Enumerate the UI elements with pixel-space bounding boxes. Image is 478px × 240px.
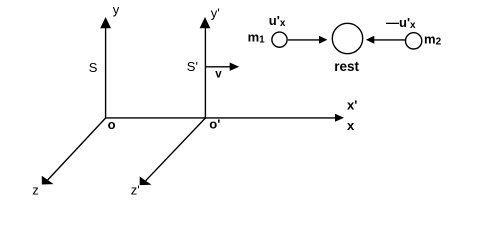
node: arrowhead m1 velocity	[319, 36, 327, 44]
wire: velocity v arrow of S' frame	[206, 66, 232, 68]
svg-text:rest: rest	[334, 59, 359, 74]
svg-text:v: v	[215, 69, 222, 81]
svg-text:S: S	[89, 60, 98, 75]
svg-text:x: x	[347, 118, 355, 133]
wire: arrow from m1 toward rest mass	[288, 39, 320, 41]
wire: arrow from m2 toward rest mass	[374, 39, 406, 41]
svg-text:x': x'	[347, 98, 357, 113]
wire: S' frame y'-axis line	[204, 24, 206, 118]
node: rest mass big circle	[332, 23, 362, 53]
node: arrowhead m2 velocity	[366, 36, 374, 44]
svg-text:o: o	[108, 117, 116, 132]
svg-text:o': o'	[209, 117, 220, 132]
svg-text:z': z'	[131, 183, 140, 198]
node: x-axis arrowhead	[335, 114, 344, 122]
wire: S' frame z'-axis diagonal	[146, 118, 206, 181]
node: particle m2 circle	[406, 33, 422, 49]
svg-text:S': S'	[187, 59, 198, 74]
node: z arrowhead	[42, 176, 54, 185]
wire: S frame z-axis diagonal	[48, 118, 106, 180]
wire: S frame y-axis line	[105, 24, 107, 118]
node: particle m1 circle	[272, 32, 287, 47]
node: v arrowhead	[230, 62, 240, 70]
svg-text:z: z	[32, 183, 39, 198]
svg-text:y': y'	[211, 5, 220, 20]
node: S' y'-axis arrowhead	[200, 17, 211, 28]
svg-text:y: y	[113, 2, 120, 17]
node: S y-axis arrowhead	[100, 17, 111, 28]
node: z' arrowhead	[140, 177, 152, 186]
wire: shared x baseline	[106, 117, 337, 119]
